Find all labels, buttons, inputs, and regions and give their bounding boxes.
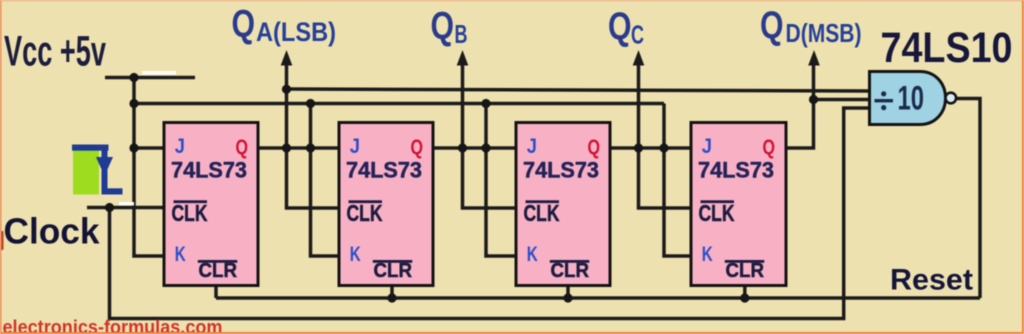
svg-text:74LS10: 74LS10	[881, 25, 1013, 72]
svg-text:B: B	[455, 19, 468, 49]
svg-text:74LS73: 74LS73	[523, 158, 599, 183]
svg-text:10: 10	[898, 80, 925, 118]
svg-text:CLK: CLK	[699, 200, 735, 226]
svg-text:Reset: Reset	[890, 264, 973, 297]
svg-text:D(MSB): D(MSB)	[786, 18, 862, 48]
svg-text:CLK: CLK	[524, 200, 560, 226]
svg-text:K: K	[350, 243, 361, 266]
svg-text:CLR: CLR	[374, 260, 413, 282]
svg-text:K: K	[702, 243, 713, 266]
svg-text:Q: Q	[236, 136, 249, 159]
svg-text:J: J	[702, 135, 712, 158]
svg-text:Q: Q	[763, 136, 776, 159]
svg-text:Vcc +5v: Vcc +5v	[4, 28, 106, 76]
svg-text:CLK: CLK	[172, 200, 208, 226]
svg-text:Q: Q	[232, 3, 256, 46]
svg-text:CLK: CLK	[347, 200, 383, 226]
svg-text:CLR: CLR	[551, 260, 590, 282]
svg-text:J: J	[527, 135, 537, 158]
svg-text:CLR: CLR	[199, 260, 238, 282]
svg-text:A(LSB): A(LSB)	[256, 17, 336, 47]
svg-text:Q: Q	[588, 136, 601, 159]
svg-text:J: J	[350, 135, 360, 158]
svg-text:Q: Q	[411, 136, 424, 159]
svg-text:CLR: CLR	[726, 260, 765, 282]
svg-text:74LS73: 74LS73	[698, 158, 774, 183]
svg-text:74LS73: 74LS73	[171, 158, 247, 183]
svg-text:74LS73: 74LS73	[346, 158, 422, 183]
svg-text:J: J	[175, 135, 185, 158]
svg-text:C: C	[631, 20, 644, 50]
svg-text:electronics-formulas.com: electronics-formulas.com	[3, 317, 223, 334]
svg-text:Q: Q	[608, 5, 632, 48]
svg-text:K: K	[175, 243, 186, 266]
svg-text:Clock: Clock	[4, 211, 101, 252]
svg-text:Q: Q	[760, 5, 784, 48]
svg-text:Q: Q	[431, 5, 455, 48]
svg-text:K: K	[527, 243, 538, 266]
